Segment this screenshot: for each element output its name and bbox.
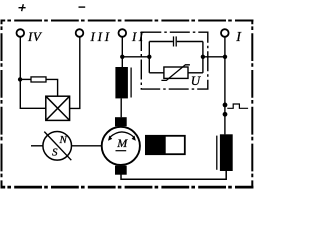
- magnet rotor diagonal: [44, 132, 71, 161]
- minus polarity mark: [79, 6, 86, 8]
- suppression box dash-dot outline: [141, 32, 208, 89]
- capacitor: [174, 36, 177, 46]
- enclosure dash-dot frame: [1, 20, 254, 189]
- motor top brush: [115, 117, 127, 126]
- svg-text:M: M: [116, 136, 128, 150]
- choke L1 (filled bar): [115, 67, 128, 98]
- wire: terminal II down: [121, 37, 123, 67]
- svg-text:II: II: [131, 29, 145, 44]
- wire: junction II to suppression loop: [122, 56, 149, 58]
- terminal IV: [17, 29, 25, 37]
- permanent magnet (half filled): [146, 136, 185, 154]
- svg-text:III: III: [90, 29, 112, 44]
- junction below terminal II: [120, 55, 124, 59]
- svg-text:IV: IV: [27, 29, 43, 44]
- wire: loop bottom rail left: [149, 72, 164, 74]
- wire: loop right junction to terminal I node: [203, 56, 225, 58]
- wire: loop top rail right: [177, 41, 203, 43]
- junction under terminal I: [223, 55, 227, 59]
- junction on IV wire: [18, 77, 22, 81]
- terminal III: [76, 29, 84, 37]
- wire: loop bottom rail right: [188, 72, 203, 74]
- wire: terminal III down to lamp right side: [70, 37, 80, 109]
- wire: loop right vertical: [202, 42, 204, 73]
- varistor: [164, 67, 188, 78]
- motor bottom brush: [115, 166, 127, 175]
- lamp (X-box): [46, 96, 70, 120]
- resistor: [31, 77, 46, 82]
- junction left of suppression loop: [147, 55, 151, 59]
- wire: choke L2 to motor bottom brush: [121, 171, 226, 179]
- wire: junction to resistor: [20, 78, 31, 80]
- wire: loop top rail left: [149, 41, 173, 43]
- wire: loop left vertical: [148, 42, 150, 73]
- pulse waveform symbol: [227, 104, 248, 108]
- wire: choke to motor top brush: [120, 98, 122, 117]
- terminal II: [119, 29, 127, 37]
- choke L2 (filled bar): [220, 134, 233, 171]
- wire: rotor to motor: [72, 145, 102, 147]
- svg-text:S: S: [52, 147, 58, 159]
- magnet rotor N/S circle: [43, 132, 72, 161]
- motor body: [102, 127, 140, 165]
- terminal I: [221, 29, 229, 37]
- junction right of suppression loop: [201, 55, 205, 59]
- wire: rotor left stub: [31, 145, 43, 147]
- choke L2 side line: [216, 136, 218, 170]
- junction lower at pulse symbol: [223, 112, 228, 117]
- plus polarity mark: [19, 4, 26, 11]
- choke L1 side line: [130, 68, 132, 98]
- junction upper at pulse symbol: [223, 103, 228, 108]
- wire: resistor to lamp top: [46, 79, 58, 96]
- svg-text:N: N: [59, 134, 68, 146]
- varistor strike-through: [161, 65, 190, 81]
- svg-text:U: U: [191, 73, 202, 88]
- wire: terminal IV down and to lamp left side: [20, 37, 46, 108]
- wire: terminal I down to choke L2: [224, 37, 226, 134]
- motor rotation arrow: [110, 132, 135, 138]
- motor label underline: [116, 150, 127, 152]
